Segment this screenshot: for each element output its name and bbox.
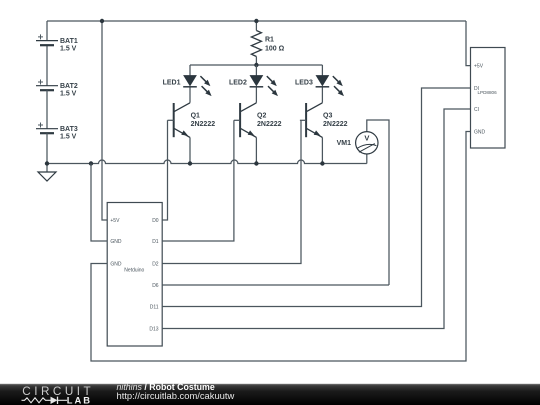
- svg-text:D6: D6: [152, 283, 159, 289]
- battery BAT2: [36, 80, 78, 129]
- wire D13 to CI: [162, 109, 470, 329]
- voltmeter VM1: [337, 120, 389, 285]
- node junction ground-battery: [45, 161, 49, 165]
- transistor Q1: [168, 103, 216, 164]
- svg-text:+5V: +5V: [474, 63, 484, 69]
- wire GND2 to LPD8806 GND: [91, 132, 471, 362]
- svg-text:http://circuitlab.com/cakuutw: http://circuitlab.com/cakuutw: [117, 390, 235, 401]
- svg-text:1.5 V: 1.5 V: [60, 91, 77, 98]
- svg-text:BAT1: BAT1: [60, 38, 78, 45]
- LED LED2: [229, 65, 277, 103]
- svg-text:V: V: [364, 133, 369, 142]
- svg-text:1.5 V: 1.5 V: [60, 46, 77, 53]
- svg-text:BAT3: BAT3: [60, 126, 78, 133]
- wire D1 to Q2 base: [162, 120, 234, 241]
- transistor Q3: [300, 103, 348, 164]
- svg-text:GND: GND: [474, 129, 486, 135]
- svg-text:Q2: Q2: [257, 112, 266, 119]
- svg-text:+5V: +5V: [110, 218, 120, 224]
- svg-text:LED3: LED3: [295, 79, 313, 86]
- resistor R1: [251, 21, 284, 65]
- svg-text:CI: CI: [474, 107, 479, 113]
- ground: [38, 164, 56, 182]
- svg-text:BAT2: BAT2: [60, 83, 78, 90]
- wire GND1 to Netduino: [91, 164, 107, 242]
- svg-text:VM1: VM1: [337, 140, 352, 147]
- svg-text:100 Ω: 100 Ω: [265, 45, 285, 52]
- LED LED3: [295, 65, 343, 103]
- wire D6 to VM1: [162, 284, 389, 286]
- svg-text:2N2222: 2N2222: [323, 121, 348, 128]
- wire D2 to Q3 base: [162, 120, 301, 263]
- svg-text:LED1: LED1: [163, 79, 181, 86]
- svg-text:D0: D0: [152, 218, 159, 224]
- svg-text:GND: GND: [110, 261, 122, 267]
- node junction R1 bottom: [254, 63, 258, 67]
- svg-text:LAB: LAB: [67, 394, 92, 405]
- battery BAT1: [36, 21, 78, 86]
- node junction Q1 emitter: [188, 161, 192, 165]
- transistor Q2: [234, 103, 282, 164]
- node junction ground-GND1: [89, 161, 93, 165]
- CircuitLab logo: [22, 385, 95, 405]
- svg-text:Netduino: Netduino: [124, 267, 144, 273]
- wire ground rail with hops: [47, 160, 367, 164]
- svg-text:2N2222: 2N2222: [191, 121, 216, 128]
- svg-text:R1: R1: [265, 37, 274, 44]
- LED LED1: [163, 65, 211, 103]
- wire D11 to DI: [162, 88, 470, 307]
- node junction top-left: [100, 19, 104, 23]
- svg-text:D2: D2: [152, 261, 159, 267]
- node junction Q3 emitter: [320, 161, 324, 165]
- wire D0 to Q1 base: [162, 120, 167, 220]
- svg-text:Q3: Q3: [323, 112, 332, 119]
- LPD8806 U2: [471, 48, 506, 149]
- svg-text:LED2: LED2: [229, 79, 247, 86]
- Netduino U1: [107, 203, 162, 347]
- wire +5V drop to LPD8806: [466, 21, 471, 66]
- wire top +5V rail: [47, 20, 466, 22]
- svg-text:Q1: Q1: [191, 112, 200, 119]
- svg-text:2N2222: 2N2222: [257, 121, 282, 128]
- footer bar: [0, 384, 540, 405]
- wire LED anode rail: [190, 64, 322, 66]
- svg-text:D11: D11: [150, 304, 159, 310]
- svg-text:D13: D13: [149, 326, 158, 332]
- battery BAT3: [36, 123, 78, 164]
- node junction R1 top: [254, 19, 258, 23]
- svg-text:D1: D1: [152, 239, 159, 245]
- node junction Q2 emitter: [254, 161, 258, 165]
- svg-text:GND: GND: [110, 239, 122, 245]
- svg-text:1.5 V: 1.5 V: [60, 134, 77, 141]
- svg-text:LPD8806: LPD8806: [478, 90, 498, 95]
- wire +5V vertical to Netduino: [102, 21, 107, 220]
